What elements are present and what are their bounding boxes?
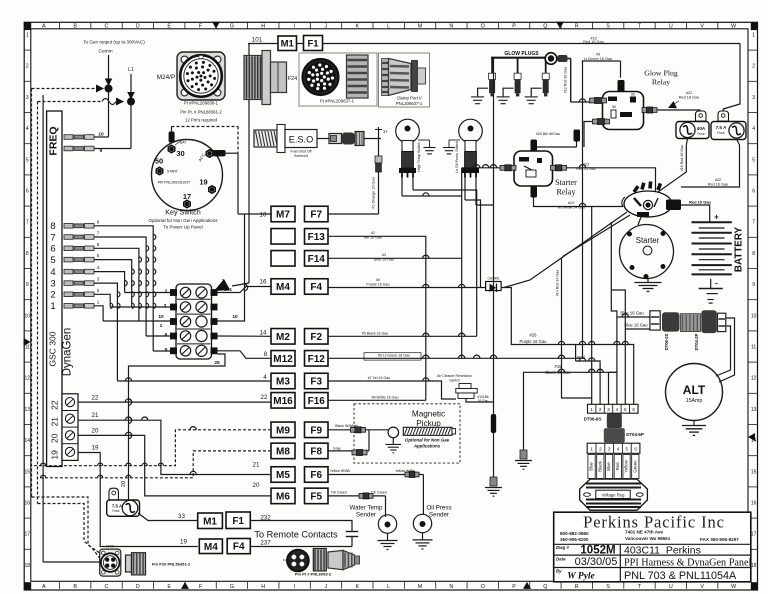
ground 15 black: [515, 460, 532, 462]
connector M1 box top: [278, 36, 297, 51]
svg-text:6: 6: [752, 189, 755, 195]
svg-text:V: V: [700, 584, 704, 590]
svg-text:M5: M5: [276, 470, 290, 481]
svg-text:19: 19: [199, 178, 207, 187]
svg-text:#3: #3: [382, 253, 386, 257]
svg-text:Starter: Starter: [636, 236, 660, 245]
svg-text:Optional for Non Gae: Optional for Non Gae: [405, 438, 450, 443]
svg-text:Gray: Gray: [333, 446, 341, 450]
svg-text:15: 15: [751, 469, 757, 475]
node L1 dot: [128, 98, 135, 105]
svg-text:50: 50: [155, 157, 163, 166]
svg-text:2: 2: [752, 64, 755, 70]
svg-text:8: 8: [50, 221, 55, 232]
svg-text:#6: #6: [376, 278, 380, 282]
wire F1 to capacitor 232: [250, 521, 352, 532]
wire 20 to M6: [78, 435, 271, 496]
svg-text:DT06-6S: DT06-6S: [584, 417, 602, 422]
svg-text:PNL 703 & PNL11054A: PNL 703 & PNL11054A: [624, 570, 737, 582]
magnetic pickup dashed box: [354, 404, 460, 463]
wire sender1 down: [402, 195, 462, 197]
svg-text:3: 3: [97, 277, 100, 282]
connector F1 detail box: [299, 53, 377, 106]
svg-text:#21: #21: [686, 91, 692, 95]
svg-text:D: D: [136, 584, 140, 590]
svg-text:86: 86: [631, 93, 635, 97]
svg-text:10: 10: [232, 314, 238, 320]
wire glow relay bottom to starter relay top: [576, 142, 578, 148]
wire comm down to freq 10: [108, 89, 110, 138]
svg-text:P: P: [512, 584, 516, 590]
starter solenoid center: [643, 200, 652, 209]
gsc terminal circles 22-19: [62, 394, 78, 461]
voltage regulator: [580, 479, 648, 510]
svg-text:M: M: [418, 24, 423, 30]
svg-text:M4: M4: [276, 282, 290, 293]
svg-text:FAX 360-906-8297: FAX 360-906-8297: [700, 537, 739, 542]
svg-text:U: U: [669, 584, 673, 590]
svg-text:3: 3: [50, 279, 55, 290]
wire solenoid to battery: [681, 205, 710, 222]
svg-text:S: S: [606, 584, 610, 590]
svg-text:237: 237: [260, 540, 271, 547]
wire 9 down from F12 path: [582, 61, 584, 358]
water temp ground: [387, 533, 389, 540]
svg-text:E.S.O: E.S.O: [289, 135, 314, 145]
svg-text:7.5 A: 7.5 A: [716, 125, 727, 130]
svg-text:F13: F13: [308, 232, 326, 243]
glow relay right splice: [642, 108, 647, 113]
svg-text:Fuse: Fuse: [717, 131, 724, 135]
wire red to pin: [576, 361, 601, 404]
svg-text:25: 25: [214, 360, 220, 366]
glow plug bus: [491, 57, 546, 59]
ESO threaded stud: [254, 130, 277, 147]
svg-text:F1: F1: [232, 516, 244, 527]
freq terminal 9: [64, 146, 73, 151]
ground stack sender 2: [448, 140, 450, 147]
svg-text:F4: F4: [283, 559, 287, 563]
svg-text:7401 NE 47th Ave: 7401 NE 47th Ave: [625, 529, 663, 534]
svg-text:#12 Red 16 Gau: #12 Red 16 Gau: [564, 67, 568, 93]
svg-text:M6: M6: [276, 492, 290, 503]
svg-text:2: 2: [26, 64, 29, 70]
voltage reg wire colors: [588, 455, 595, 479]
svg-text:B: B: [73, 584, 77, 590]
svg-text:PNL206637-1: PNL206637-1: [396, 101, 423, 106]
svg-text:C: C: [105, 584, 109, 590]
svg-text:E: E: [167, 584, 171, 590]
wire F14 #3 blue: [328, 257, 462, 259]
wire M8 dashed left: [40, 451, 271, 478]
wire 22 to M16: [78, 401, 271, 403]
terminal block row 2: [180, 302, 190, 312]
svg-text:#1 Orange 16 Gau: #1 Orange 16 Gau: [372, 177, 376, 208]
connector M4 bottom: [199, 539, 222, 554]
svg-text:7: 7: [26, 220, 29, 226]
starter ground: [647, 279, 649, 283]
svg-text:Q: Q: [543, 584, 547, 590]
wire row7 to block row4: [146, 335, 171, 337]
svg-text:800-882-3860: 800-882-3860: [560, 531, 589, 536]
svg-text:#22: #22: [715, 178, 721, 182]
svg-text:M1: M1: [281, 39, 295, 50]
svg-text:L1: L1: [128, 67, 134, 73]
svg-text:M12: M12: [273, 354, 293, 365]
svg-text:GLOW PLUGS: GLOW PLUGS: [504, 51, 539, 57]
wire F7 to orange junction: [328, 213, 379, 215]
key switch terminal ACC: [206, 150, 212, 157]
wire row6 to block row3: [139, 320, 171, 322]
svg-text:I: I: [294, 24, 296, 30]
ground stack sender 1: [429, 140, 431, 147]
starter relay right splice: [551, 165, 556, 170]
starter relay bottom stud: [531, 186, 538, 198]
wire F6 down to oil press: [422, 475, 424, 515]
svg-text:F9: F9: [310, 425, 322, 436]
svg-text:20: 20: [253, 482, 260, 489]
svg-text:22: 22: [50, 400, 60, 410]
svg-text:7: 7: [222, 279, 225, 285]
svg-text:Sender: Sender: [356, 512, 376, 519]
key switch stud 30: [169, 132, 175, 143]
svg-text:DT04-2P: DT04-2P: [694, 333, 699, 350]
svg-text:22: 22: [261, 394, 268, 401]
svg-text:3: 3: [164, 303, 167, 309]
connector box M12/F12: [271, 351, 295, 367]
svg-text:U: U: [669, 24, 673, 30]
glow relay bottom stud: [574, 130, 581, 142]
svg-text:18: 18: [751, 563, 757, 569]
glow plug 3 ground: [531, 88, 542, 96]
svg-text:6: 6: [97, 242, 100, 247]
wire F6 yellow: [328, 474, 424, 476]
svg-text:DynaGen: DynaGen: [62, 328, 74, 377]
wire bulb2 bus: [449, 139, 460, 141]
svg-text:Air Cleaner Restriction: Air Cleaner Restriction: [437, 374, 472, 378]
fuse 40A body: [676, 122, 709, 139]
glow plug 2: [517, 58, 519, 73]
svg-text:Fuel Shut Off: Fuel Shut Off: [290, 150, 311, 154]
svg-text:Yellow: Yellow: [624, 459, 629, 472]
wire glow relay to 40A fuse: [657, 109, 701, 111]
svg-text:6: 6: [26, 189, 29, 195]
svg-text:O: O: [481, 584, 485, 590]
wire block row3 up to M7 net: [218, 214, 245, 321]
svg-text:7: 7: [97, 231, 100, 236]
svg-text:40A: 40A: [697, 126, 706, 131]
svg-text:R: R: [575, 24, 579, 30]
wire bundle merge 110: [110, 306, 132, 308]
glow relay internals: [608, 97, 617, 102]
terminal block body: [176, 284, 212, 359]
oil press ground: [422, 533, 424, 540]
svg-text:4: 4: [263, 374, 267, 381]
svg-text:1: 1: [160, 323, 163, 329]
svg-text:Red 10 Gau: Red 10 Gau: [689, 200, 712, 205]
wire block row4 to M2: [218, 335, 272, 337]
svg-text:M1: M1: [203, 516, 217, 527]
svg-text:Blue 16 Gau: Blue 16 Gau: [374, 258, 394, 262]
svg-text:101: 101: [252, 37, 263, 44]
key switch circle: [152, 140, 223, 211]
svg-text:Pickup: Pickup: [416, 419, 441, 428]
glow plug 3: [545, 58, 547, 73]
svg-text:33: 33: [178, 513, 185, 520]
svg-text:10: 10: [158, 314, 164, 320]
wire F5 down to water temp: [385, 496, 387, 514]
wire 25 from block to fuse: [129, 354, 226, 500]
starter relay box: [514, 151, 553, 186]
title block: [554, 512, 751, 582]
svg-text:F12: F12: [308, 354, 326, 365]
svg-text:F7: F7: [310, 210, 322, 221]
svg-text:R: R: [575, 584, 579, 590]
svg-text:#24: #24: [568, 201, 574, 205]
svg-text:9: 9: [752, 282, 755, 288]
svg-text:13: 13: [25, 407, 31, 413]
svg-text:11: 11: [25, 345, 30, 351]
svg-text:16: 16: [25, 501, 31, 507]
wire air switch to ground line: [466, 399, 494, 403]
svg-text:M2: M2: [276, 332, 290, 343]
svg-text:3: 3: [752, 95, 755, 101]
wire row8 to block row5: [153, 350, 171, 352]
svg-text:6: 6: [632, 407, 635, 412]
svg-text:Date: Date: [556, 557, 566, 562]
svg-text:5: 5: [752, 157, 755, 163]
svg-text:8: 8: [97, 219, 100, 224]
wire sender1b down: [413, 190, 477, 336]
svg-text:14: 14: [260, 330, 267, 337]
wire blue2: [625, 328, 650, 330]
wire dashed left vertical L1: [37, 102, 39, 504]
wire F12 #9 ltgreen: [328, 357, 583, 359]
svg-text:Blue 16 Gau: Blue 16 Gau: [620, 311, 644, 316]
connector box M8/F8: [271, 443, 295, 459]
connector F1 box top: [304, 36, 323, 51]
wire F13 #2 blk: [328, 236, 426, 400]
svg-text:J: J: [325, 24, 328, 30]
wire F9 black/white: [328, 429, 388, 431]
svg-text:Blue: Blue: [606, 462, 611, 471]
svg-text:F4: F4: [233, 542, 245, 553]
wire dashed bottoms to connector: [32, 497, 100, 553]
wire F16 #8 white: [328, 399, 426, 401]
bottom left ribbed connector: [126, 555, 132, 572]
wire 21 to M5: [78, 420, 270, 474]
svg-text:D: D: [136, 24, 140, 30]
connector box M6/F5: [271, 488, 295, 504]
svg-text:Pin P10 PNL56351-2: Pin P10 PNL56351-2: [152, 562, 191, 567]
svg-text:M9: M9: [276, 425, 290, 436]
svg-text:BATTERY: BATTERY: [734, 226, 745, 272]
svg-text:1: 1: [590, 447, 593, 452]
svg-text:ALT: ALT: [683, 383, 706, 397]
svg-text:14: 14: [25, 438, 31, 444]
glow relay left splice lower: [593, 119, 598, 124]
svg-text:4: 4: [617, 447, 620, 452]
svg-text:Red: Red: [577, 355, 585, 360]
magnetic pickup coil: [388, 427, 399, 438]
svg-text:A: A: [42, 584, 46, 590]
connector M24/P pins: [204, 76, 207, 79]
connector box M16/F16: [271, 393, 295, 409]
wire fuse to M1 33: [138, 513, 198, 521]
svg-text:Vancouver Wa 98661: Vancouver Wa 98661: [625, 536, 671, 541]
svg-text:Sender: Sender: [429, 512, 449, 519]
svg-text:L: L: [387, 584, 390, 590]
wire L1 down to freq 9: [130, 102, 132, 149]
svg-text:1: 1: [752, 33, 755, 39]
water temp sender: [378, 515, 396, 533]
terminal block row 4: [180, 331, 190, 341]
svg-text:3: 3: [608, 447, 611, 452]
node comm dot: [105, 85, 112, 92]
wire glow to relay: [568, 58, 571, 60]
bottom left round connector: [100, 549, 121, 576]
svg-text:20: 20: [50, 433, 60, 443]
svg-text:Relay: Relay: [652, 78, 670, 87]
key switch terminal 50: [156, 167, 162, 174]
starter relay top stud: [531, 140, 538, 152]
svg-text:W Pyle: W Pyle: [567, 571, 595, 581]
svg-text:F6: F6: [310, 470, 322, 481]
svg-text:85: 85: [612, 105, 616, 109]
terminal block row 1: [180, 287, 190, 297]
glow plug relay box: [603, 92, 644, 130]
svg-text:To Gen output (up to 300VAC): To Gen output (up to 300VAC): [83, 40, 145, 45]
svg-text:21: 21: [50, 417, 60, 427]
svg-text:M7: M7: [276, 210, 290, 221]
svg-text:22: 22: [92, 395, 99, 402]
svg-text:P: P: [512, 24, 516, 30]
alternator ALT: [666, 364, 723, 421]
svg-text:#23: #23: [583, 163, 589, 167]
svg-text:F8: F8: [310, 447, 322, 458]
svg-text:1: 1: [50, 301, 55, 312]
wire vertical 461: [461, 168, 463, 358]
wire comm arrow down: [108, 55, 110, 80]
15 black connector: [520, 450, 527, 459]
svg-text:A: A: [42, 24, 46, 30]
svg-text:H: H: [261, 584, 265, 590]
wire glow ground vertical: [493, 58, 495, 477]
svg-text:-: -: [715, 279, 718, 288]
wire left vertical solid: [42, 95, 44, 562]
clamp port connector: [382, 59, 389, 96]
svg-text:8: 8: [264, 351, 268, 358]
glow ground wire connector: [490, 477, 497, 486]
svg-text:#14 Red 14 Gau: #14 Red 14 Gau: [556, 270, 560, 296]
connector F1 face: [303, 59, 339, 95]
wire starter relay left: [462, 167, 500, 169]
fold markers: [212, 22, 220, 29]
svg-text:Black 16 Gau: Black 16 Gau: [545, 370, 571, 375]
svg-text:Blue 16 Gau: Blue 16 Gau: [624, 323, 648, 328]
glow plug 2 ground: [503, 88, 513, 96]
svg-text:12: 12: [25, 376, 31, 382]
glow relay top stud: [618, 80, 625, 92]
svg-text:K: K: [355, 584, 359, 590]
svg-text:Red 16 Gau: Red 16 Gau: [708, 183, 728, 187]
bottom middle connector dark: [287, 550, 309, 572]
wire 9 to relay stud: [620, 61, 622, 78]
splice on orange wire: [375, 156, 382, 163]
svg-text:15: 15: [25, 469, 31, 475]
svg-text:2: 2: [165, 289, 168, 295]
svg-text:Yel W/Blk 14 Gau: Yel W/Blk 14 Gau: [557, 206, 585, 210]
wire 7.5A fuse to starter stud: [681, 139, 740, 187]
svg-text:#16 Red 18 Gau: #16 Red 18 Gau: [680, 145, 684, 171]
wire F2 #5 black: [328, 335, 477, 337]
svg-text:19: 19: [50, 450, 60, 460]
svg-text:PPI Harness & DynaGen Panel: PPI Harness & DynaGen Panel: [624, 557, 751, 568]
svg-text:17: 17: [25, 532, 31, 538]
bottom middle ribbed connector: [313, 549, 326, 571]
connector M24/P body: [177, 52, 225, 100]
wire top 101 down to 7.5A fuse: [723, 44, 740, 112]
svg-text:Optional for Non Gen Applicati: Optional for Non Gen Applications: [148, 218, 218, 223]
svg-text:1: 1: [97, 299, 100, 304]
starter relay left splice: [500, 165, 505, 170]
sender switch bulb 2: [459, 119, 483, 143]
wire bulb1 bus: [418, 139, 430, 141]
connector F1 barrel: [347, 55, 369, 98]
svg-text:7: 7: [752, 220, 755, 226]
svg-text:F1: F1: [307, 38, 319, 49]
wire dashed left vertical comm: [31, 89, 33, 498]
svg-text:DK Green: DK Green: [371, 491, 387, 495]
svg-text:2: 2: [599, 447, 602, 452]
starter motor circle: [620, 225, 674, 279]
wire freq9 stub: [94, 148, 131, 150]
svg-text:4: 4: [26, 126, 29, 132]
svg-text:7: 7: [50, 232, 55, 243]
svg-text:#9: #9: [596, 53, 600, 57]
wire F8 up to F9: [368, 430, 370, 451]
svg-text:5: 5: [97, 253, 100, 258]
svg-text:L: L: [387, 24, 390, 30]
terminal block row 3: [180, 316, 190, 326]
battery plates: [692, 221, 732, 223]
glow plug 1: [491, 58, 493, 73]
wire row5 to block row2: [132, 306, 171, 308]
svg-text:17: 17: [183, 192, 191, 201]
ESO flange: [277, 125, 285, 153]
svg-text:By: By: [556, 568, 562, 573]
svg-text:5: 5: [624, 407, 627, 412]
wire 15 to pin: [608, 372, 610, 404]
svg-text:2: 2: [50, 290, 55, 301]
oil press sender: [413, 514, 431, 532]
DT06 dark housing: [607, 414, 622, 429]
ESO connector pieces: [329, 134, 342, 144]
svg-text:M: M: [418, 584, 423, 590]
svg-text:8: 8: [26, 251, 29, 257]
svg-text:Voltage Reg: Voltage Reg: [602, 492, 625, 497]
svg-text:1052M: 1052M: [580, 545, 615, 557]
svg-text:Fuse: Fuse: [112, 509, 119, 513]
svg-text:F4: F4: [310, 282, 322, 293]
svg-text:Applications: Applications: [413, 444, 441, 449]
fuse 7.5A bottom body: [107, 500, 140, 516]
svg-text:BAT: BAT: [180, 141, 186, 145]
svg-text:Blue: Blue: [589, 462, 594, 471]
svg-text:DT04-6P: DT04-6P: [626, 432, 644, 437]
svg-text:1+: 1+: [383, 129, 389, 134]
svg-text:1: 1: [26, 33, 29, 39]
